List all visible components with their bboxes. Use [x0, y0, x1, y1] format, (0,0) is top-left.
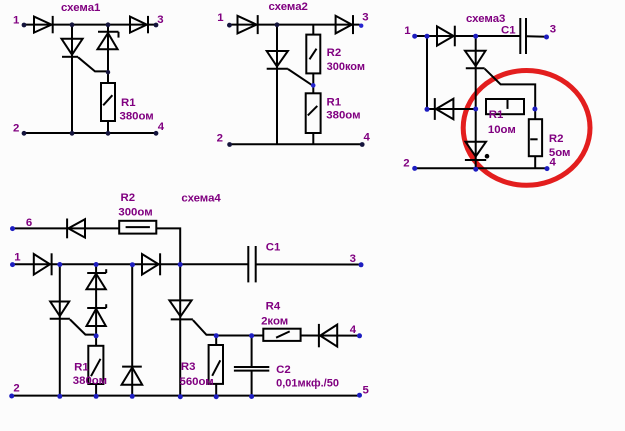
svg-text:R2: R2	[549, 133, 564, 145]
svg-text:R1: R1	[121, 97, 136, 109]
svg-text:2ком: 2ком	[261, 315, 288, 327]
svg-text:схема3: схема3	[466, 13, 505, 25]
svg-text:560ом: 560ом	[180, 376, 214, 388]
svg-text:2: 2	[403, 158, 409, 170]
svg-text:380ом: 380ом	[120, 111, 154, 123]
svg-text:C2: C2	[276, 364, 291, 376]
svg-text:R1: R1	[489, 109, 504, 121]
svg-text:R2: R2	[121, 192, 136, 204]
svg-text:1: 1	[14, 252, 21, 264]
svg-text:10ом: 10ом	[488, 124, 516, 136]
svg-text:4: 4	[350, 324, 357, 336]
svg-text:2: 2	[217, 133, 223, 145]
svg-text:0,01мкф./50: 0,01мкф./50	[276, 377, 339, 389]
svg-text:2: 2	[13, 122, 19, 134]
svg-text:300ом: 300ом	[118, 207, 152, 219]
svg-text:4: 4	[158, 121, 165, 133]
svg-text:R2: R2	[327, 47, 342, 59]
svg-text:R1: R1	[327, 96, 342, 108]
svg-text:380ом: 380ом	[73, 375, 107, 387]
svg-text:5ом: 5ом	[549, 147, 571, 159]
svg-text:5: 5	[363, 384, 370, 396]
svg-text:R3: R3	[181, 361, 196, 373]
svg-text:300ком: 300ком	[327, 61, 365, 73]
svg-text:3: 3	[362, 12, 368, 24]
svg-text:1: 1	[13, 14, 20, 26]
svg-text:R4: R4	[266, 301, 281, 313]
svg-text:схема1: схема1	[61, 2, 101, 14]
svg-text:4: 4	[364, 132, 371, 144]
svg-text:схема4: схема4	[181, 193, 221, 205]
svg-text:3: 3	[157, 14, 163, 26]
svg-text:6: 6	[26, 217, 32, 229]
svg-text:3: 3	[550, 24, 556, 36]
svg-text:380ом: 380ом	[326, 110, 360, 122]
svg-text:1: 1	[404, 25, 411, 37]
svg-text:2: 2	[13, 382, 19, 394]
svg-text:C1: C1	[501, 25, 516, 37]
svg-text:3: 3	[350, 253, 356, 265]
svg-text:1: 1	[217, 12, 224, 24]
svg-text:схема2: схема2	[269, 1, 308, 13]
svg-text:R1: R1	[74, 361, 89, 373]
svg-text:C1: C1	[266, 242, 281, 254]
